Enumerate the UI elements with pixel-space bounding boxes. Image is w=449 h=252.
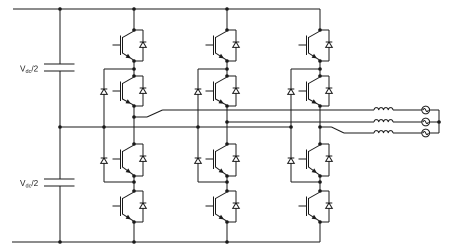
node Q11 emitter <box>318 174 322 178</box>
node Q12 collector <box>318 189 322 193</box>
node Q8 emitter <box>225 220 229 224</box>
node leg 1 DC+ junction <box>132 7 136 11</box>
transistor Q10 <box>299 77 321 105</box>
node Q7 emitter <box>225 174 229 178</box>
diode D15 clamp upper <box>195 89 202 94</box>
node leg 3 clamp top junction <box>318 67 322 71</box>
wire phase A to source <box>393 109 422 111</box>
node star point <box>437 120 441 124</box>
diode D3 <box>134 144 146 176</box>
wire DC-link branch middle <box>59 71 61 179</box>
transistor Q5 <box>206 31 228 60</box>
node Q2 emitter <box>132 104 136 108</box>
wire phase C to source <box>393 132 422 134</box>
wire leg 2 clamp mid <box>197 94 199 158</box>
svg-text:Vdc/2: Vdc/2 <box>20 179 39 190</box>
wire leg 3 clamp mid <box>290 94 292 158</box>
diode D2 <box>134 76 146 106</box>
node phase A tap <box>132 115 136 119</box>
wire source V2 to bus <box>430 121 439 123</box>
node leg 1 clamp bottom junction <box>132 180 136 184</box>
node Q9 collector <box>318 28 322 32</box>
diode D11 <box>320 144 332 176</box>
wire leg 3 vertical <box>319 9 321 242</box>
capacitor C1 <box>44 64 75 71</box>
inductor L1 <box>374 108 393 110</box>
node Q7 collector <box>225 142 229 146</box>
diode D8 <box>227 191 239 222</box>
diode D13 clamp upper <box>101 89 108 94</box>
node leg 2 DC- junction <box>225 240 229 244</box>
wire phase B to source <box>393 121 422 123</box>
transistor Q7 <box>206 145 228 175</box>
node Q10 emitter <box>318 104 322 108</box>
transistor Q9 <box>299 31 321 60</box>
wire leg 3 clamp upper <box>291 69 320 89</box>
wire leg 1 clamp upper <box>104 69 134 89</box>
node Q3 emitter <box>132 174 136 178</box>
node C2 bottom rail junction <box>58 240 62 244</box>
node Q11 collector <box>318 142 322 146</box>
node Q5 emitter <box>225 59 229 63</box>
AC source V3 <box>422 129 430 137</box>
AC source V1 <box>422 106 430 114</box>
node Q3 collector <box>132 142 136 146</box>
transistor Q6 <box>206 77 228 105</box>
node Q12 emitter <box>318 220 322 224</box>
wire star-point bus <box>438 110 440 133</box>
wire phase A output <box>134 110 374 117</box>
node leg 2 clamp bottom junction <box>225 180 229 184</box>
node phase B tap <box>225 120 229 124</box>
svg-text:Vdc/2: Vdc/2 <box>20 65 39 76</box>
wire leg 3 clamp lower <box>291 163 320 182</box>
diode D18 clamp lower <box>288 158 295 163</box>
diode D9 <box>320 30 332 61</box>
node Q6 emitter <box>225 104 229 108</box>
node C1 top rail junction <box>58 7 62 11</box>
wire DC-link branch lower <box>59 186 61 242</box>
node leg 2 clamp top junction <box>225 67 229 71</box>
diode D1 <box>134 30 146 61</box>
diode D10 <box>320 76 332 106</box>
wire source V1 to bus <box>430 109 439 111</box>
node leg 3 clamp bottom junction <box>318 180 322 184</box>
node leg 1 clamp neutral junction <box>102 125 106 129</box>
node leg 1 clamp top junction <box>132 67 136 71</box>
diode D17 clamp upper <box>288 89 295 94</box>
node Q8 collector <box>225 189 229 193</box>
wire top DC+ rail <box>13 8 320 10</box>
wire neutral rail <box>60 126 291 128</box>
wire phase C output <box>320 127 374 133</box>
wire leg 2 vertical <box>226 9 228 242</box>
node Q1 emitter <box>132 59 136 63</box>
wire leg 1 clamp mid <box>103 94 105 158</box>
diode D7 <box>227 144 239 176</box>
node Q5 collector <box>225 28 229 32</box>
diode D6 <box>227 76 239 106</box>
wire bottom DC- rail <box>12 241 320 243</box>
node phase C tap <box>318 125 322 129</box>
transistor Q1 <box>113 31 135 60</box>
wire leg 2 clamp upper <box>198 69 227 89</box>
inductor L2 <box>374 120 393 122</box>
diode D12 <box>320 191 332 222</box>
node leg 3 clamp neutral junction <box>289 125 293 129</box>
node Q1 collector <box>132 28 136 32</box>
transistor Q3 <box>113 145 135 175</box>
wire leg 2 clamp lower <box>198 163 227 182</box>
wire phase B output <box>227 121 374 123</box>
node leg 1 DC- junction <box>132 240 136 244</box>
transistor Q2 <box>113 77 135 105</box>
diode D14 clamp lower <box>101 158 108 163</box>
wire leg 1 vertical <box>133 9 135 242</box>
wire leg 1 clamp lower <box>104 163 134 182</box>
wire source V3 to bus <box>430 132 439 134</box>
capacitor C2 <box>44 179 75 186</box>
node Q4 collector <box>132 189 136 193</box>
AC source V2 <box>422 118 430 126</box>
wire DC-link branch upper <box>59 9 61 64</box>
node leg 2 DC+ junction <box>225 7 229 11</box>
diode D4 <box>134 191 146 222</box>
diode D16 clamp lower <box>195 158 202 163</box>
transistor Q12 <box>299 192 321 221</box>
transistor Q11 <box>299 145 321 175</box>
node Q10 collector <box>318 74 322 78</box>
transistor Q4 <box>113 192 135 221</box>
inductor L3 <box>374 131 393 133</box>
node neutral capacitor midpoint <box>58 125 62 129</box>
node leg 2 clamp neutral junction <box>196 125 200 129</box>
node Q4 emitter <box>132 220 136 224</box>
node Q6 collector <box>225 74 229 78</box>
diode D5 <box>227 30 239 61</box>
node Q2 collector <box>132 74 136 78</box>
node Q9 emitter <box>318 59 322 63</box>
transistor Q8 <box>206 192 228 221</box>
